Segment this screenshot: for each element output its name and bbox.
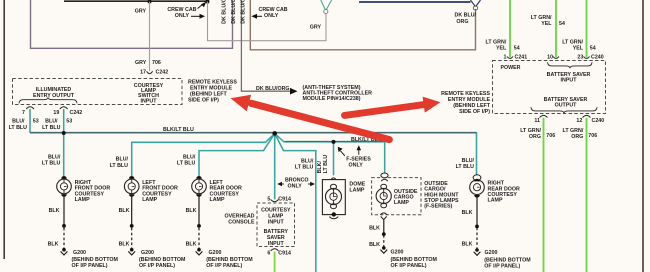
svg-text:706: 706 [588, 133, 597, 139]
svg-text:LAMP: LAMP [75, 197, 90, 203]
svg-text:G200: G200 [485, 250, 498, 256]
svg-text:ONLY: ONLY [264, 13, 279, 19]
arrow: bronco right [308, 183, 312, 185]
svg-text:BLU/: BLU/ [116, 157, 129, 163]
module box: remote keyless entry (right, dashed) [493, 61, 606, 114]
svg-text:54: 54 [559, 21, 565, 27]
wire: DK BLU/ORG top right horizontal [359, 1, 471, 3]
svg-text:LT GRN/: LT GRN/ [520, 128, 541, 134]
svg-text:CREW CAB: CREW CAB [259, 7, 288, 13]
module box: overhead console (dashed) [257, 203, 295, 247]
svg-text:LT BLU: LT BLU [177, 161, 196, 167]
lamp: left rear door courtesy lamp [192, 176, 207, 197]
right border line [642, 0, 644, 272]
svg-text:10: 10 [547, 54, 553, 60]
node: junction dot on top bus at second GRY wire [206, 0, 210, 4]
wire: GRY 706 vertical to pin 17 [149, 2, 151, 72]
svg-text:ONLY: ONLY [349, 162, 364, 168]
wire: pin 7 down to bus [29, 109, 31, 133]
svg-text:C914: C914 [278, 251, 291, 257]
svg-text:ONLY: ONLY [175, 13, 190, 19]
brace: illuminated entry output pins [19, 97, 77, 103]
svg-text:LT BLU: LT BLU [456, 164, 475, 170]
node: main bus fan junction [272, 131, 277, 136]
svg-text:LAMP: LAMP [210, 197, 225, 203]
svg-text:BLK: BLK [462, 242, 473, 248]
svg-text:(BEHIND BOTTOM: (BEHIND BOTTOM [206, 257, 253, 263]
svg-text:17: 17 [140, 70, 146, 76]
svg-text:ORG: ORG [456, 19, 468, 25]
svg-text:LAMP: LAMP [142, 197, 157, 203]
svg-text:C241: C241 [515, 55, 528, 61]
svg-text:BLU/: BLU/ [183, 154, 196, 160]
svg-text:(BEHIND BOTTOM: (BEHIND BOTTOM [484, 257, 531, 263]
svg-text:OF I/P PANEL): OF I/P PANEL) [139, 263, 175, 269]
svg-text:OUTPUT: OUTPUT [555, 103, 578, 109]
arrow: f-series diagonal to dome junction [341, 151, 345, 156]
brace: battery saver output pins [531, 107, 597, 113]
svg-text:BLU/: BLU/ [301, 159, 314, 165]
wire: LT GRN/YEL 54 into pin 1 [509, 0, 511, 57]
svg-text:SIDE OF I/P): SIDE OF I/P) [188, 97, 219, 103]
ground chain: outside cargo lamp to G200 [383, 220, 385, 246]
svg-text:DOME: DOME [349, 181, 365, 187]
lamp: outside cargo lamp (dashed box) [372, 173, 421, 220]
lamp: left front door courtesy lamp [124, 176, 139, 197]
lamp: right rear door courtesy lamp [470, 175, 485, 198]
connector: top right in-line connector [471, 0, 481, 7]
wire: dark stripe of BLK/LT BLU bus [30, 131, 477, 133]
svg-text:SIDE OF I/P): SIDE OF I/P) [459, 109, 490, 115]
svg-text:G200: G200 [73, 250, 86, 256]
wire: right box (DK BLU path) [250, 0, 475, 50]
ground chain: left front door lamp to G200 [131, 196, 133, 249]
svg-text:LT BLU: LT BLU [9, 125, 28, 131]
svg-text:54: 54 [590, 46, 596, 52]
svg-text:ENTRY OUTPUT: ENTRY OUTPUT [33, 93, 75, 99]
svg-text:BLK/LT BLU: BLK/LT BLU [163, 127, 194, 133]
wire: top bus black [64, 0, 208, 2]
svg-text:6: 6 [267, 251, 270, 257]
node: dome branch junction [332, 140, 336, 144]
svg-text:BLK: BLK [369, 225, 380, 231]
svg-text:G200: G200 [391, 249, 404, 255]
wire: left box (DK BLU path) [31, 0, 233, 48]
svg-text:BLU/: BLU/ [462, 158, 475, 164]
overlay: red arrow to right module [345, 97, 441, 116]
left border line [3, 0, 5, 259]
svg-text:23: 23 [577, 55, 583, 61]
overlay: red arrow to left module [231, 95, 390, 140]
svg-text:DK BLU/: DK BLU/ [455, 13, 477, 19]
wire: LT GRN/ORG 706 from pin 12 [586, 118, 588, 272]
wire: pin 19 down through bus to right front door lamp [63, 109, 65, 176]
wire: gray GRY loop from top bus [208, 2, 327, 41]
svg-text:YEL: YEL [496, 46, 507, 52]
ground chain: left rear door lamp to G200 [198, 196, 200, 249]
svg-text:GRY: GRY [135, 8, 147, 14]
svg-text:BLK: BLK [49, 208, 60, 214]
svg-text:C240: C240 [591, 55, 604, 61]
svg-text:YEL: YEL [573, 46, 584, 52]
svg-text:5: 5 [267, 196, 270, 202]
node: junction dot on top bus at GRY wire [148, 0, 152, 4]
svg-text:OF I/P PANEL): OF I/P PANEL) [484, 264, 520, 270]
arrow: to anti-theft module [290, 88, 298, 95]
wire: main BLK/LT BLU bus with corner to right rear door lamp [30, 133, 477, 175]
svg-text:LAMP: LAMP [488, 198, 503, 204]
svg-text:LT GRN/: LT GRN/ [563, 128, 584, 134]
module box: remote keyless entry (left, dashed) [13, 79, 183, 105]
arrow: crew cab diagonal [198, 5, 203, 9]
lamp: right front door courtesy lamp [57, 176, 72, 197]
svg-text:G200: G200 [209, 250, 222, 256]
svg-text:BLU/: BLU/ [48, 154, 61, 160]
svg-text:BLK: BLK [48, 241, 59, 247]
svg-text:ORG: ORG [529, 134, 541, 140]
arrow: crew cab pointing left [256, 15, 263, 17]
wire: dome/cargo BLK/LT BLU branch [275, 134, 385, 174]
svg-text:BLK: BLK [186, 241, 197, 247]
connector: GRY in-line connector (teal Y) [321, 0, 332, 10]
svg-text:INPUT: INPUT [268, 220, 285, 226]
svg-text:DK BLU/O: DK BLU/O [222, 0, 228, 24]
svg-text:LT BLU: LT BLU [323, 155, 329, 174]
svg-text:C242: C242 [70, 110, 83, 116]
wire: LT GRN/YEL 54 into pin 10 [555, 0, 557, 57]
svg-text:LT BLU: LT BLU [295, 165, 314, 171]
svg-text:706: 706 [152, 60, 161, 66]
svg-text:(BEHIND BOTTOM: (BEHIND BOTTOM [139, 257, 186, 263]
wire: LT GRN/YEL 54 into pin 23 [586, 0, 588, 57]
svg-text:INPUT: INPUT [561, 78, 578, 84]
svg-text:(BEHIND BOTTOM: (BEHIND BOTTOM [72, 257, 119, 263]
svg-text:DK BLU/O: DK BLU/O [231, 0, 237, 24]
svg-text:54: 54 [514, 46, 520, 52]
svg-text:DK BLU/O: DK BLU/O [240, 0, 246, 24]
svg-text:GRY: GRY [310, 25, 322, 31]
ground chain: right front door lamp to G200 [63, 196, 65, 249]
svg-text:706: 706 [546, 133, 555, 139]
brace: battery saver input pins [548, 62, 593, 68]
wire: overhead console feed [274, 134, 276, 200]
wire: bronco only branch [275, 134, 316, 272]
svg-text:BLK: BLK [186, 208, 197, 214]
svg-text:LT BLU: LT BLU [110, 163, 129, 169]
svg-text:BLK: BLK [369, 242, 380, 248]
svg-text:MODULE PIN#14/C238): MODULE PIN#14/C238) [303, 96, 361, 102]
svg-text:GRY: GRY [135, 60, 147, 66]
svg-text:OF I/P PANEL): OF I/P PANEL) [72, 263, 108, 269]
svg-text:INPUT: INPUT [268, 241, 285, 247]
svg-text:BLU/: BLU/ [45, 119, 58, 125]
svg-text:(F-SERIES): (F-SERIES) [424, 204, 452, 210]
svg-text:ONLY: ONLY [288, 184, 303, 190]
svg-text:LT BLU: LT BLU [42, 125, 61, 131]
wire: LT GRN below pin 6 [274, 252, 276, 272]
ground chain: right rear door lamp to G200 [476, 195, 478, 249]
wire: dome lamp stub [333, 142, 335, 175]
svg-text:1: 1 [504, 55, 507, 61]
svg-text:ORG: ORG [571, 134, 583, 140]
svg-text:DK BLU/ORG: DK BLU/ORG [256, 86, 290, 92]
svg-text:POWER: POWER [501, 65, 521, 71]
wire: LT GRN/ORG 706 from pin 11 [543, 118, 545, 272]
svg-text:YEL: YEL [541, 21, 552, 27]
svg-text:LT BLU: LT BLU [42, 161, 61, 167]
svg-text:INPUT: INPUT [141, 98, 158, 104]
svg-text:LAMP: LAMP [394, 200, 409, 206]
svg-text:53: 53 [66, 119, 72, 125]
svg-text:G200: G200 [141, 250, 154, 256]
svg-text:LAMP: LAMP [349, 188, 364, 194]
arrow: crew cab horizontal right [191, 15, 201, 17]
svg-text:(BEHIND BOTTOM: (BEHIND BOTTOM [391, 257, 438, 263]
wire: DK BLU/ORG middle to anti-theft [241, 0, 290, 91]
svg-text:7: 7 [22, 110, 25, 116]
svg-text:CREW CAB: CREW CAB [167, 7, 196, 13]
svg-text:BLK: BLK [119, 241, 130, 247]
svg-text:OF I/P PANEL): OF I/P PANEL) [391, 263, 427, 269]
arrow: f-series vertical to branch [358, 149, 360, 155]
svg-text:BLK: BLK [462, 210, 473, 216]
svg-text:12: 12 [576, 118, 582, 124]
svg-text:OF I/P PANEL): OF I/P PANEL) [206, 263, 242, 269]
svg-text:C240: C240 [592, 118, 605, 124]
svg-text:19: 19 [53, 110, 59, 116]
svg-text:BLU/: BLU/ [12, 119, 25, 125]
lamp: dome lamp [322, 178, 345, 219]
svg-text:C242: C242 [156, 70, 169, 76]
svg-text:53: 53 [33, 119, 39, 125]
svg-text:CONSOLE: CONSOLE [228, 219, 255, 225]
svg-text:C914: C914 [278, 196, 291, 202]
arrow: bronco left [281, 183, 285, 185]
svg-text:11: 11 [534, 118, 540, 124]
wire: left front door lamp branch [132, 134, 275, 177]
svg-text:BLK: BLK [119, 208, 130, 214]
node: bus junction at pin 19 wire [62, 131, 66, 135]
wire: left rear door lamp branch [199, 134, 275, 177]
